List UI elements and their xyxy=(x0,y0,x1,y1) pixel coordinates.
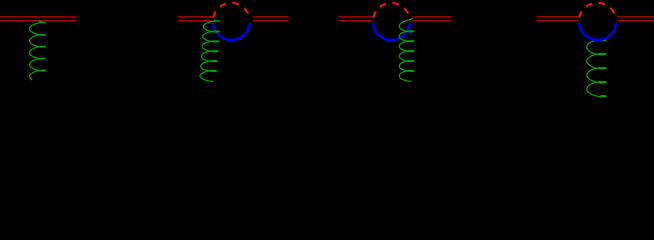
gluon G1 xyxy=(30,21,46,80)
heavy-quark double line D2 right xyxy=(253,17,289,21)
loop red dashed arc R4 xyxy=(579,3,616,20)
heavy-quark double line D4 right xyxy=(618,17,654,21)
meson loop blue arc B3 xyxy=(373,24,410,40)
heavy-quark double line D3 right xyxy=(412,17,452,21)
loop red dashed arc R3 xyxy=(373,3,410,20)
heavy-quark double line D3 left xyxy=(339,17,373,21)
heavy-quark double line D4 left xyxy=(536,17,578,21)
heavy-quark double line D1 xyxy=(0,17,77,21)
meson loop blue arc B4 xyxy=(579,24,616,40)
heavy-quark double line D2 left xyxy=(178,17,212,21)
loop red dashed arc R2 xyxy=(213,3,250,20)
gluon G4 xyxy=(587,39,606,96)
meson loop blue arc B2 xyxy=(213,24,250,40)
gluon G3 xyxy=(399,19,414,82)
gluon G2 xyxy=(200,20,220,81)
